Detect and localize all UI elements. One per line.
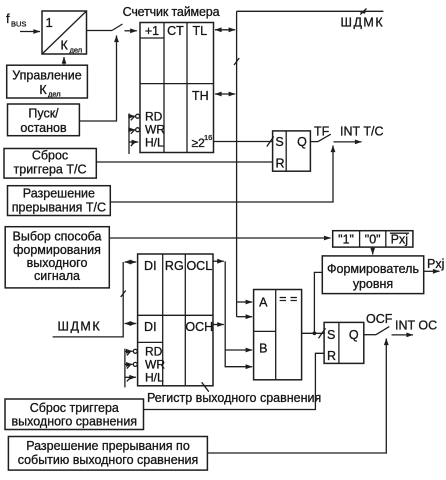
svg-text:INT Т/С: INT Т/С <box>340 125 384 139</box>
svg-text:H/L: H/L <box>145 371 164 385</box>
wire interrupt enable T/C to switch <box>110 146 333 203</box>
bus slash on register input <box>121 291 126 298</box>
wire comparator output to level former <box>314 272 322 333</box>
register block RG output compare <box>138 254 214 386</box>
svg-text:сигнала: сигнала <box>34 269 80 283</box>
svg-text:Сброс: Сброс <box>32 149 68 163</box>
wire TL data bidirectional <box>215 29 235 31</box>
svg-text:формирования: формирования <box>13 243 101 257</box>
wire start/stop enable to switch <box>79 36 116 122</box>
svg-text:дел: дел <box>70 46 83 55</box>
flip-flop OCF (S-R trigger) <box>324 322 364 363</box>
svg-text:Управление: Управление <box>12 69 82 83</box>
dynamic tick on OCF S input <box>319 328 326 338</box>
svg-text:уровня: уровня <box>353 277 393 291</box>
svg-text:Счетчик таймера: Счетчик таймера <box>123 5 220 19</box>
svg-text:S: S <box>327 328 335 342</box>
switch start/stop blade <box>112 24 123 31</box>
svg-text:Q: Q <box>349 328 359 342</box>
wire switch to counter +1 input <box>125 30 137 32</box>
svg-text:Пуск/: Пуск/ <box>28 107 59 121</box>
svg-text:WR: WR <box>145 123 165 137</box>
wire mode cells to level former arrow <box>372 247 374 254</box>
divider Kdel block <box>42 11 87 55</box>
wire WR strobe into counter <box>129 128 140 134</box>
box Разрешение прерывания по событию выходного сравнения <box>8 437 207 471</box>
wire overflow to TF trigger S input <box>214 141 273 143</box>
box Пуск/останов <box>8 104 80 136</box>
svg-text:RG: RG <box>165 259 184 273</box>
svg-text:TH: TH <box>192 89 209 103</box>
svg-text:S: S <box>275 135 283 149</box>
svg-text:Q: Q <box>297 135 307 149</box>
svg-text:OCL: OCL <box>186 259 212 273</box>
box Сброс триггера Т/С <box>4 149 96 179</box>
junction dot <box>313 331 317 335</box>
wire OCL output arrow <box>213 260 224 262</box>
switch INT OC blade <box>376 327 389 335</box>
svg-text:К: К <box>61 39 69 53</box>
svg-text:Разрешение прерывания по: Разрешение прерывания по <box>26 439 190 453</box>
svg-text:INT OC: INT OC <box>395 319 437 333</box>
svg-text:B: B <box>259 342 267 356</box>
wire ШДМК to register <box>53 262 124 337</box>
wire OCH output arrow <box>213 324 224 326</box>
wire divider output <box>87 30 113 32</box>
svg-text:"1": "1" <box>338 233 354 247</box>
leader line to register <box>202 382 209 391</box>
svg-text:выходного сравнения: выходного сравнения <box>12 415 138 429</box>
svg-text:останов: останов <box>20 121 67 135</box>
wire INT OC output arrow <box>392 334 414 336</box>
svg-text:Pxj: Pxj <box>391 233 408 247</box>
svg-text:"0": "0" <box>365 233 381 247</box>
wire TF Q output <box>310 141 318 143</box>
wire H/L strobe into register <box>125 377 136 381</box>
wire fBUS input arrow <box>20 31 40 33</box>
svg-text:Разрешение: Разрешение <box>23 187 95 201</box>
wire WR strobe into register <box>125 362 137 368</box>
wire mode select to mode cells <box>109 237 330 239</box>
wire bus to comparator A input 1 <box>237 301 253 303</box>
svg-text:К: К <box>39 83 47 97</box>
svg-text:R: R <box>275 157 284 171</box>
svg-text:OCH: OCH <box>185 320 213 334</box>
svg-text:событию выходного сравнения: событию выходного сравнения <box>18 453 199 467</box>
wire data bus vertical <box>236 11 238 316</box>
node fBUS input label <box>6 11 26 29</box>
counter timer block CT <box>140 23 214 153</box>
wire RD strobe into register <box>125 349 137 355</box>
svg-text:Pxj: Pxj <box>427 257 444 271</box>
box Сброс триггера выходного сравнения <box>5 399 144 430</box>
wire INT T/C output arrow <box>334 141 362 143</box>
svg-text:= =: = = <box>279 292 297 306</box>
svg-text:Выбор способа: Выбор способа <box>13 230 102 244</box>
counter control stub <box>128 114 130 155</box>
wire to comparator B input 1 <box>225 349 252 351</box>
box Управление Кдел <box>7 65 88 98</box>
comparator A==B <box>254 290 302 380</box>
wire TH data bidirectional <box>215 93 235 95</box>
mode cells "1" "0" Pxj <box>333 231 413 247</box>
svg-text:+1: +1 <box>145 24 159 38</box>
svg-text:WR: WR <box>145 358 165 372</box>
svg-text:OCF: OCF <box>366 312 393 326</box>
svg-text:H/L: H/L <box>145 136 164 150</box>
svg-text:ШДМК: ШДМК <box>58 320 102 334</box>
wire RD strobe into counter <box>129 114 140 120</box>
box Выбор способа формирования выходного сигнала <box>5 227 109 288</box>
box Формирователь уровня <box>322 256 423 294</box>
svg-text:CT: CT <box>167 24 184 38</box>
svg-text:TL: TL <box>193 24 208 38</box>
dynamic tick on TF S input <box>267 137 274 147</box>
svg-text:RD: RD <box>145 110 163 124</box>
register control stub <box>124 349 126 388</box>
wire OCL/OCH vertical to comparator B <box>225 261 252 367</box>
svg-text:Формирователь: Формирователь <box>327 262 419 276</box>
wire interrupt enable OC to switch <box>207 339 386 454</box>
wire TF trigger reset <box>96 161 272 163</box>
wire data bus top horizontal ШДМК <box>237 10 384 12</box>
switch INT T/C blade <box>318 134 331 141</box>
svg-text:BUS: BUS <box>11 20 26 29</box>
bus slash marker on vertical <box>234 58 239 65</box>
wire H/L strobe into counter <box>129 142 138 146</box>
svg-text:A: A <box>259 296 268 310</box>
box Разрешение прерывания Т/С <box>8 186 111 216</box>
svg-text:ШДМК: ШДМК <box>341 16 385 30</box>
svg-text:R: R <box>327 349 336 363</box>
wire comparator output to OCF S input <box>302 332 325 334</box>
svg-text:f: f <box>6 11 10 26</box>
flip-flop TF (S-R trigger) <box>273 131 311 171</box>
svg-text:Сброс триггера: Сброс триггера <box>30 401 119 415</box>
svg-text:1: 1 <box>46 15 53 30</box>
svg-text:TF: TF <box>314 125 330 139</box>
svg-text:16: 16 <box>204 133 212 142</box>
wire OCF Q output <box>364 334 376 336</box>
wire DI low bidirectional <box>125 323 137 325</box>
wire Kdel control arrow <box>63 57 65 65</box>
svg-text:DI: DI <box>144 259 157 273</box>
svg-text:RD: RD <box>145 345 163 359</box>
svg-text:триггера Т/С: триггера Т/С <box>14 163 87 177</box>
svg-text:дел: дел <box>48 90 61 99</box>
svg-text:Регистр выходного сравнения: Регистр выходного сравнения <box>147 391 321 405</box>
wire OCF reset from box <box>144 353 325 409</box>
wire Pxj output arrow <box>424 270 440 272</box>
svg-text:прерывания Т/С: прерывания Т/С <box>12 201 106 215</box>
wire DI high bidirectional <box>125 261 137 263</box>
svg-text:DI: DI <box>144 320 157 334</box>
bus slash marker on top wire <box>360 9 367 15</box>
wire bus to comparator A input 2 <box>237 316 253 318</box>
